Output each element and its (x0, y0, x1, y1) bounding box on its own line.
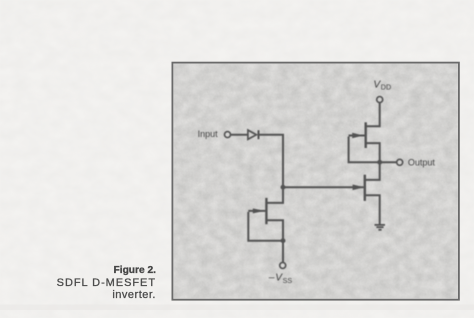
svg-text:SS: SS (283, 276, 293, 285)
svg-text:–: – (269, 273, 275, 284)
svg-text:DD: DD (381, 82, 391, 91)
svg-text:Output: Output (408, 158, 436, 168)
svg-text:Input: Input (198, 129, 219, 139)
